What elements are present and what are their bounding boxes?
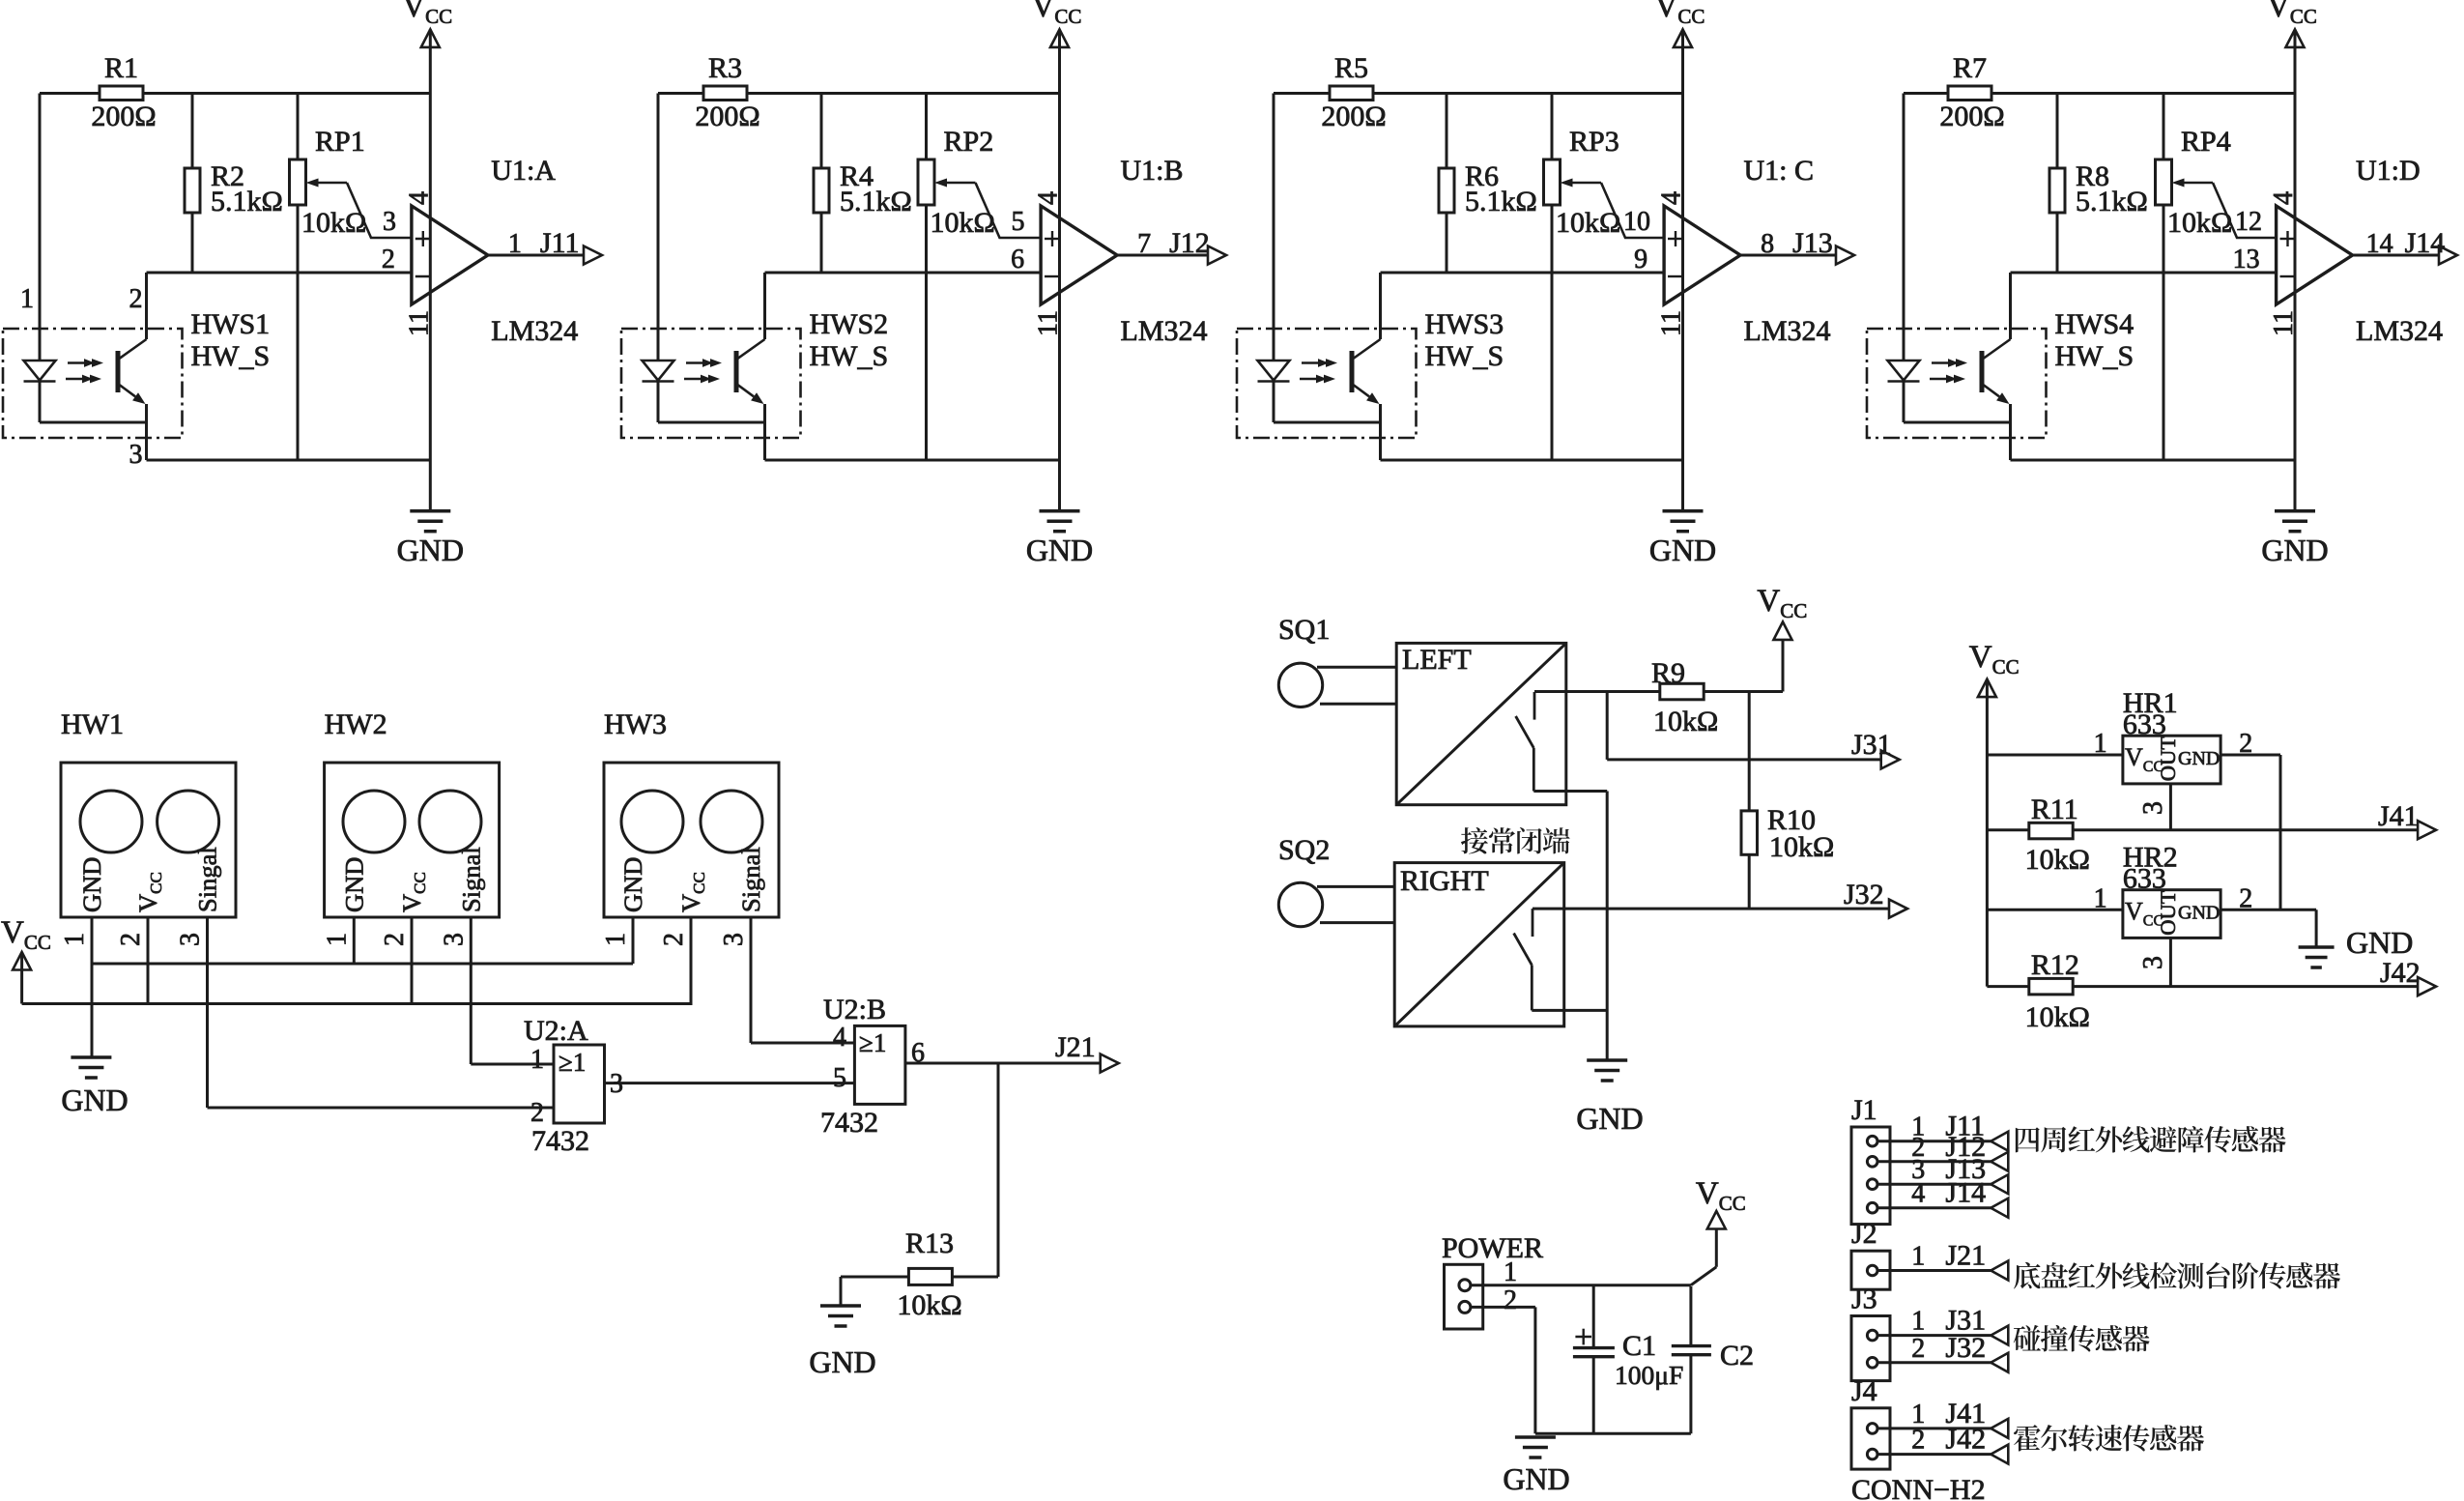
LED of HWS3 [1273, 329, 1275, 361]
svg-text:GND: GND [339, 857, 368, 912]
svg-text:R3: R3 [708, 52, 742, 84]
svg-text:12: 12 [2235, 207, 2262, 237]
svg-text:3: 3 [383, 207, 396, 237]
svg-text:GND: GND [618, 857, 647, 912]
svg-text:J32: J32 [1844, 879, 1884, 910]
svg-text:2: 2 [129, 284, 143, 314]
resistor R12 [2029, 978, 2073, 995]
svg-text:1: 1 [1504, 1257, 1517, 1287]
capacitor C1 100uF [1592, 1285, 1595, 1348]
svg-text:VCC: VCC [1655, 0, 1705, 28]
svg-text:RIGHT: RIGHT [1400, 865, 1489, 897]
svg-text:SQ2: SQ2 [1278, 834, 1330, 866]
wire opto cathode-emitter block 3 [1274, 421, 1381, 424]
ground (R13) [840, 1277, 843, 1306]
svg-text:2: 2 [530, 1098, 544, 1128]
svg-text:7432: 7432 [531, 1125, 589, 1157]
op-amp U1:D LM324 [2277, 206, 2353, 304]
wire top rail block 4 [1904, 92, 1948, 95]
svg-text:RP1: RP1 [315, 126, 365, 158]
svg-text:3: 3 [439, 933, 469, 946]
svg-text:GND: GND [397, 533, 464, 567]
svg-text:OUT: OUT [2156, 736, 2180, 781]
svg-text:R13: R13 [905, 1227, 954, 1259]
svg-text:GND: GND [2346, 925, 2413, 960]
label 底盘红外线检测台阶传感器 [2014, 1262, 2040, 1289]
svg-text:GND: GND [1649, 533, 1716, 567]
optocoupler HWS2 HW_S [621, 329, 801, 438]
svg-text:200Ω: 200Ω [1321, 101, 1386, 132]
wire HW2 pin3 to U2:A pin1 [470, 917, 473, 1064]
ground (HR section) [2299, 945, 2335, 949]
wire U2:B pin6 output J21 [905, 1062, 1119, 1065]
svg-text:1: 1 [1911, 1242, 1925, 1272]
svg-text:J14: J14 [1945, 1177, 1986, 1209]
svg-text:LM324: LM324 [1121, 315, 1208, 347]
resistor R4 [820, 94, 823, 169]
wire HR2 pin3 out [2169, 938, 2172, 986]
svg-text:J14: J14 [2405, 227, 2446, 259]
svg-text:GND: GND [77, 857, 106, 912]
wire J42 [1877, 1453, 2008, 1456]
svg-text:LM324: LM324 [491, 315, 578, 347]
svg-text:10kΩ: 10kΩ [1556, 207, 1620, 239]
wire minus input block 4 [2011, 272, 2277, 274]
wire HW3 pin3 to U2:B pin4 [750, 917, 753, 1043]
svg-text:1: 1 [1911, 1307, 1925, 1337]
wire HW3 pin2 [690, 917, 693, 1004]
svg-text:HWS1: HWS1 [191, 308, 271, 340]
LED of HWS2 [657, 329, 660, 361]
svg-text:10kΩ: 10kΩ [931, 207, 995, 239]
wire minus input block 1 [147, 272, 412, 274]
svg-text:2: 2 [380, 933, 410, 946]
wire J14 [1877, 1206, 2008, 1209]
svg-text:GND: GND [1026, 533, 1093, 567]
light arrows of HWS1 [68, 361, 92, 364]
output wire J12 [1117, 254, 1226, 257]
hall sensor HR2 633 [2123, 890, 2220, 938]
svg-text:J4: J4 [1851, 1375, 1877, 1407]
svg-text:HWS2: HWS2 [810, 308, 889, 340]
wire HR2 pin1 [1987, 909, 2123, 911]
op-amp U1:A LM324 [412, 206, 488, 304]
output wire J14 [2353, 254, 2457, 257]
svg-text:U1: C: U1: C [1744, 155, 1815, 187]
light arrows of HWS2 [686, 361, 710, 364]
resistor R3 [703, 86, 747, 101]
output wire J13 [1740, 254, 1854, 257]
svg-text:C1: C1 [1622, 1330, 1656, 1362]
svg-text:200Ω: 200Ω [91, 101, 156, 132]
resistor R11 [2029, 823, 2073, 839]
svg-text:RP3: RP3 [1569, 126, 1619, 158]
svg-text:13: 13 [2233, 245, 2260, 274]
wiper of RP3 [1573, 182, 1602, 185]
wire J31 [1607, 758, 1900, 761]
svg-text:5.1kΩ: 5.1kΩ [211, 186, 283, 217]
switch LEFT box [1396, 643, 1566, 804]
svg-text:J42: J42 [1945, 1424, 1986, 1456]
wire POWER pin2 to ground rail [1471, 1306, 1535, 1309]
or-gate U2:A 7432 [554, 1045, 605, 1123]
svg-text:10kΩ: 10kΩ [2025, 1001, 2090, 1033]
svg-text:200Ω: 200Ω [695, 101, 759, 132]
svg-text:HWS4: HWS4 [2055, 308, 2135, 340]
wire R9 to VCC [1704, 690, 1783, 693]
wire HW3 pin1 [632, 917, 635, 964]
svg-text:14: 14 [2366, 229, 2393, 259]
wire opto pin 2 block 1 [145, 273, 148, 339]
wire HW1 pin2 [147, 917, 150, 1004]
wire top rail block 3 [1274, 92, 1330, 95]
resistor R1 [100, 86, 143, 101]
or-gate U2:B 7432 [854, 1025, 905, 1104]
svg-text:4: 4 [833, 1023, 846, 1053]
svg-text:11: 11 [404, 310, 434, 336]
svg-text:R7: R7 [1953, 52, 1987, 84]
wire J21 [1877, 1269, 2008, 1272]
svg-text:1: 1 [508, 229, 522, 259]
svg-text:9: 9 [1634, 245, 1647, 274]
svg-text:HW_S: HW_S [2055, 340, 2135, 372]
svg-text:1: 1 [20, 284, 34, 314]
svg-text:J31: J31 [1851, 729, 1892, 761]
svg-text:VCC: VCC [2267, 0, 2317, 28]
svg-text:4: 4 [1657, 191, 1687, 205]
potentiometer RP4 [2163, 94, 2165, 160]
wire J21 junction to R13 [997, 1063, 1000, 1277]
phototransistor of HWS4 [1980, 351, 1985, 392]
wire bottom (pin 3 gnd) block 1 [147, 459, 431, 462]
svg-text:R5: R5 [1334, 52, 1368, 84]
svg-text:GND: GND [1503, 1461, 1569, 1496]
svg-text:GND: GND [1576, 1101, 1643, 1136]
wire opto cathode-emitter block 2 [658, 421, 765, 424]
svg-text:U1:A: U1:A [491, 155, 556, 187]
wire J13 [1877, 1183, 2008, 1186]
ground block 2 [1058, 460, 1061, 511]
LED of HWS4 [1903, 329, 1905, 361]
wire GND bus [91, 963, 633, 966]
wire RIGHT common to GND drop [1532, 1009, 1607, 1012]
capacitor C2 [1689, 1286, 1692, 1346]
svg-text:U2:B: U2:B [823, 994, 886, 1025]
svg-text:J41: J41 [2378, 800, 2419, 832]
light arrows of HWS4 [1932, 361, 1956, 364]
wire HR1 pin3 out [2169, 784, 2172, 830]
svg-text:10kΩ: 10kΩ [301, 207, 366, 239]
wiper of RP2 [947, 182, 976, 185]
svg-text:GND: GND [2261, 533, 2328, 567]
svg-text:1: 1 [60, 933, 90, 946]
svg-text:1: 1 [530, 1045, 544, 1075]
sensor HW2 [325, 763, 500, 917]
wire J32 [1533, 908, 1907, 910]
ground block 1 [429, 460, 432, 511]
svg-text:U1:B: U1:B [1121, 155, 1184, 187]
wire J41 row [1987, 828, 2028, 831]
svg-text:3: 3 [129, 440, 143, 470]
svg-text:J42: J42 [2380, 957, 2421, 989]
wire HW1 pin1 to ground [91, 917, 94, 1057]
svg-text:LM324: LM324 [1744, 315, 1831, 347]
op-amp U1:B LM324 [1041, 206, 1117, 304]
wire opto pin 2 block 4 [2009, 273, 2012, 339]
wire LEFT NC to R9 [1534, 690, 1660, 693]
wire opto pin 2 block 3 [1379, 273, 1382, 339]
svg-text:≥1: ≥1 [859, 1028, 886, 1057]
potentiometer RP3 [1551, 94, 1554, 160]
potentiometer RP1 [297, 94, 300, 160]
svg-text:3: 3 [176, 933, 206, 946]
resistor R8 [2056, 94, 2059, 169]
svg-text:GND: GND [2178, 748, 2220, 769]
svg-text:4: 4 [1034, 191, 1064, 205]
svg-text:R1: R1 [104, 52, 138, 84]
wire J31 [1877, 1334, 2008, 1337]
sensor HW3 [604, 763, 779, 917]
svg-text:Signal: Signal [736, 847, 765, 912]
ground (POWER) [1515, 1435, 1556, 1439]
wire minus input block 2 [765, 272, 1042, 274]
svg-text:8: 8 [1761, 229, 1774, 259]
wire opto cathode-emitter block 4 [1904, 421, 2011, 424]
resistor R2 [191, 94, 194, 169]
svg-text:J1: J1 [1851, 1094, 1877, 1126]
svg-text:4: 4 [2269, 191, 2299, 205]
svg-text:HW2: HW2 [325, 708, 387, 740]
svg-text:VCC: VCC [402, 0, 452, 28]
svg-text:Signal: Signal [456, 847, 485, 912]
phototransistor of HWS2 [734, 351, 739, 392]
svg-text:11: 11 [1034, 310, 1064, 336]
svg-text:LEFT: LEFT [1402, 644, 1472, 676]
svg-text:GND: GND [61, 1082, 128, 1117]
svg-text:HW3: HW3 [604, 708, 667, 740]
wire bottom (pin 5 gnd) block 2 [765, 459, 1060, 462]
output wire J11 [488, 254, 602, 257]
wire left vertical (opto pin 1) block 2 [657, 94, 660, 361]
svg-text:633: 633 [2123, 863, 2166, 895]
svg-text:J11: J11 [540, 227, 580, 259]
wire J32 [1877, 1361, 2008, 1364]
svg-text:10kΩ: 10kΩ [1653, 706, 1718, 737]
ground block 4 [2294, 460, 2297, 511]
wire HW2 pin1 [353, 917, 356, 964]
svg-text:1: 1 [2094, 729, 2107, 759]
wire left vertical (opto pin 1) block 4 [1903, 94, 1905, 361]
svg-text:J12: J12 [1169, 227, 1210, 259]
resistor R6 [1446, 94, 1448, 169]
svg-text:HW_S: HW_S [191, 340, 271, 372]
svg-text:3: 3 [2138, 801, 2168, 815]
wire bottom rail [1535, 1432, 1691, 1435]
svg-text:11: 11 [1657, 310, 1687, 336]
resistor R10 [1748, 692, 1751, 811]
svg-text:HW1: HW1 [61, 708, 124, 740]
optocoupler HWS4 HW_S [1867, 329, 2047, 438]
svg-text:1: 1 [322, 933, 352, 946]
phototransistor of HWS1 [116, 351, 121, 392]
svg-text:C2: C2 [1720, 1340, 1754, 1371]
svg-text:3: 3 [610, 1069, 623, 1099]
resistor R9 [1660, 683, 1704, 700]
svg-text:4: 4 [404, 191, 434, 205]
hall sensor HR1 633 [2123, 736, 2220, 784]
potentiometer RP2 [925, 94, 928, 160]
wire LEFT common to GND drop [1533, 790, 1607, 793]
svg-text:POWER: POWER [1442, 1232, 1543, 1264]
svg-text:RP4: RP4 [2181, 126, 2231, 158]
resistor R13 [952, 1276, 998, 1279]
wire HR2 pin2 to ground [2220, 909, 2316, 911]
svg-text:5: 5 [1012, 207, 1025, 237]
wire top rail block 2 [658, 92, 703, 95]
label 接常闭端 [1461, 827, 1488, 854]
svg-text:5: 5 [833, 1063, 846, 1093]
svg-text:J13: J13 [1792, 227, 1833, 259]
svg-text:RP2: RP2 [944, 126, 994, 158]
svg-text:10kΩ: 10kΩ [1769, 831, 1834, 863]
wire left vertical (opto pin 1) block 1 [39, 94, 42, 361]
switch RIGHT box [1394, 863, 1564, 1026]
svg-text:10: 10 [1623, 207, 1650, 237]
svg-text:200Ω: 200Ω [1939, 101, 2004, 132]
svg-text:3: 3 [719, 933, 749, 946]
switch contact LEFT [1533, 692, 1536, 720]
svg-text:J2: J2 [1851, 1218, 1877, 1250]
svg-text:7432: 7432 [820, 1107, 878, 1139]
svg-text:2: 2 [382, 245, 395, 274]
wire J41 [1877, 1427, 2008, 1429]
svg-text:R12: R12 [2031, 949, 2079, 981]
wire left vertical (opto pin 1) block 3 [1273, 94, 1275, 361]
optocoupler HWS3 HW_S [1237, 329, 1417, 438]
svg-text:GND: GND [809, 1344, 875, 1379]
resistor R5 [1330, 86, 1373, 101]
wire J12 [1877, 1160, 2008, 1163]
wire J11 [1877, 1140, 2008, 1142]
wiper of RP1 [319, 182, 348, 185]
label 霍尔转速传感器 [2014, 1425, 2041, 1451]
wire bottom (pin 10 gnd) block 3 [1381, 459, 1683, 462]
svg-text:R11: R11 [2031, 794, 2078, 825]
phototransistor of HWS3 [1350, 351, 1355, 392]
wiper of RP4 [2185, 182, 2214, 185]
label 碰撞传感器 [2014, 1325, 2041, 1351]
label 四周红外线避障传感器 [2016, 1127, 2040, 1152]
svg-text:5.1kΩ: 5.1kΩ [2076, 186, 2148, 217]
switch contact RIGHT [1532, 909, 1534, 937]
svg-text:OUT: OUT [2156, 890, 2180, 935]
sensor HW1 [61, 763, 236, 917]
wire HW2 pin2 [411, 917, 414, 1004]
svg-text:6: 6 [1011, 245, 1024, 274]
svg-text:3: 3 [2138, 956, 2168, 969]
svg-text:VCC: VCC [1032, 0, 1082, 28]
svg-text:GND: GND [2178, 903, 2220, 924]
svg-text:1: 1 [601, 933, 631, 946]
optocoupler HWS1 HW_S [3, 329, 183, 438]
wire GND drop (SQ section) [1606, 792, 1609, 1061]
svg-text:HWS3: HWS3 [1425, 308, 1504, 340]
svg-text:5.1kΩ: 5.1kΩ [840, 186, 912, 217]
light arrows of HWS3 [1302, 361, 1326, 364]
svg-text:2: 2 [1911, 1426, 1925, 1456]
svg-text:4: 4 [1911, 1179, 1925, 1209]
svg-text:2: 2 [116, 933, 146, 946]
wire opto pin 2 block 2 [763, 273, 766, 339]
svg-text:Singal: Singal [193, 847, 222, 912]
svg-text:U2:A: U2:A [524, 1015, 588, 1047]
op-amp U1: C LM324 [1664, 206, 1740, 304]
svg-text:R9: R9 [1651, 657, 1685, 689]
svg-text:633: 633 [2123, 708, 2166, 740]
svg-text:11: 11 [2269, 310, 2299, 336]
svg-text:HW_S: HW_S [810, 340, 889, 372]
ground (SQ section) [1587, 1058, 1627, 1062]
wire VCC bus [22, 1002, 693, 1005]
svg-text:J21: J21 [1945, 1240, 1986, 1272]
svg-text:SQ1: SQ1 [1278, 614, 1330, 646]
svg-text:2: 2 [1504, 1285, 1517, 1315]
wire HW1 pin3 to U2:A pin2 [206, 917, 209, 1108]
svg-text:U1:D: U1:D [2356, 155, 2421, 187]
LED of HWS1 [39, 329, 42, 361]
svg-text:2: 2 [1911, 1334, 1925, 1364]
wire bottom (pin 12 gnd) block 4 [2011, 459, 2296, 462]
svg-text:J3: J3 [1851, 1284, 1877, 1315]
svg-text:≥1: ≥1 [559, 1048, 586, 1077]
svg-text:J32: J32 [1945, 1332, 1986, 1364]
svg-text:7: 7 [1137, 229, 1151, 259]
wire opto cathode-emitter block 1 [40, 421, 147, 424]
svg-text:LM324: LM324 [2356, 315, 2443, 347]
wire junction to J31 [1606, 692, 1609, 760]
wire HR1 pin2 down [2220, 754, 2280, 757]
svg-text:10kΩ: 10kΩ [897, 1289, 961, 1321]
wire J42 row [1987, 985, 2028, 988]
svg-text:CONN−H2: CONN−H2 [1851, 1474, 1986, 1501]
wire HR1 pin1 [1987, 754, 2123, 757]
resistor R7 [1948, 86, 1991, 101]
svg-text:HW_S: HW_S [1425, 340, 1504, 372]
wire minus input block 3 [1381, 272, 1665, 274]
svg-text:10kΩ: 10kΩ [2025, 844, 2090, 876]
svg-text:2: 2 [659, 933, 689, 946]
svg-text:10kΩ: 10kΩ [2167, 207, 2232, 239]
ground block 3 [1681, 460, 1684, 511]
wire top rail block 1 [40, 92, 100, 95]
svg-text:1: 1 [2094, 883, 2107, 913]
svg-text:100μF: 100μF [1615, 1360, 1683, 1390]
svg-text:5.1kΩ: 5.1kΩ [1465, 186, 1537, 217]
svg-text:J21: J21 [1055, 1031, 1096, 1063]
ground (HW section) [71, 1055, 111, 1059]
wire POWER pin1 to VCC and caps [1471, 1284, 1691, 1286]
wire U2:A pin3 to U2:B pin5 [605, 1082, 855, 1084]
